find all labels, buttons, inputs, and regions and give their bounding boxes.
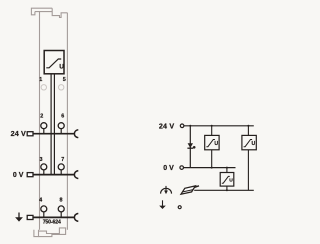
cage clamp 24V — [74, 130, 78, 138]
wire from U1 to 0V rail (right) — [53, 74, 55, 175]
field terminal square 24V — [27, 132, 33, 136]
filter block A (top left) — [205, 126, 219, 168]
svg-text:24 V: 24 V — [11, 129, 26, 138]
left housing edge — [39, 12, 41, 230]
svg-text:8: 8 — [60, 198, 63, 204]
functional earth arrow — [18, 213, 20, 218]
svg-text:2: 2 — [40, 113, 43, 119]
contact 7 — [58, 164, 64, 170]
wire from U1 to 0V rail (left) — [50, 74, 52, 175]
terminal 24V — [180, 124, 184, 128]
svg-text:1: 1 — [39, 77, 42, 83]
svg-text:U: U — [252, 141, 256, 147]
filter block B (top right) — [242, 126, 256, 191]
wire 24V row — [33, 133, 75, 135]
legend terminal circle — [178, 206, 181, 209]
module housing outline 750-624 — [31, 8, 67, 236]
top DIN-rail claw profile — [31, 8, 67, 17]
svg-text:0 V: 0 V — [163, 165, 174, 172]
contact 6 — [58, 123, 64, 129]
svg-text:U: U — [214, 141, 218, 147]
svg-text:U: U — [229, 178, 233, 184]
ghost contact 5 — [59, 85, 64, 90]
ghost contact 1 — [41, 85, 46, 90]
svg-text:4: 4 — [39, 198, 42, 204]
svg-text:3: 3 — [40, 157, 43, 163]
contact 8 — [58, 206, 64, 212]
filter block C (bottom) — [220, 168, 234, 191]
footnote dot — [193, 146, 196, 149]
field terminal square earth — [27, 215, 33, 219]
wire earth row — [33, 216, 75, 218]
legend earth arrow — [162, 200, 164, 206]
earth-via-rail symbol — [161, 186, 172, 194]
right housing edge — [66, 13, 68, 230]
wire 0V row — [33, 174, 75, 176]
svg-text:7: 7 — [61, 157, 64, 163]
suppressor branch wire — [189, 126, 191, 168]
junction dots — [189, 125, 191, 127]
24V bus wire — [184, 125, 254, 127]
0V bus wire — [184, 167, 236, 169]
svg-text:5: 5 — [63, 77, 66, 83]
terminal 0V — [180, 166, 184, 170]
earth bus wire (bottom) — [194, 189, 254, 191]
svg-text:24 V: 24 V — [159, 121, 174, 130]
svg-text:6: 6 — [61, 113, 64, 119]
cage clamp earth — [74, 213, 78, 221]
field terminal square 0V — [27, 173, 33, 177]
bottom rail foot profile — [34, 230, 39, 237]
svg-text:U: U — [59, 63, 64, 70]
cage clamp 0V — [74, 171, 78, 179]
contact 2 — [41, 123, 47, 129]
contact 4 — [41, 206, 47, 212]
filter block U1 — [44, 51, 64, 74]
DIN rail symbol — [181, 186, 199, 194]
suppressor diode D1 — [188, 143, 193, 148]
contact 3 — [41, 164, 47, 170]
svg-text:750-624: 750-624 — [43, 220, 61, 226]
svg-text:0 V: 0 V — [13, 172, 24, 179]
